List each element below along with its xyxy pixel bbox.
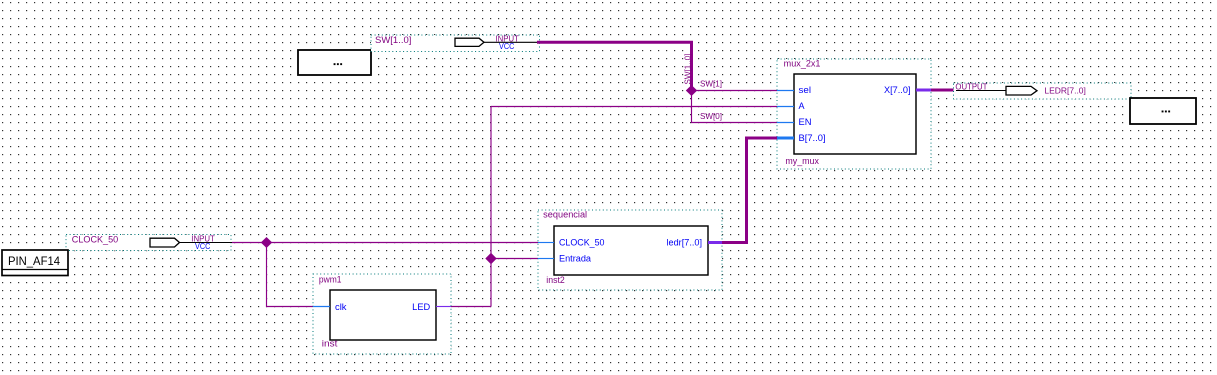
svg-text:LEDR[7..0]: LEDR[7..0]: [1044, 87, 1086, 96]
annotation box B2 (right "..."): [1130, 98, 1196, 124]
svg-text:EN: EN: [799, 117, 812, 127]
junction on SW bus (sel tap): [686, 85, 697, 96]
mux_2x1 block my_mux: [777, 59, 931, 169]
svg-text:Entrada: Entrada: [559, 253, 591, 263]
svg-text:A: A: [799, 101, 805, 111]
output pin LEDR[7..0]: [954, 83, 1132, 100]
wire clock tap to pwm clk: [267, 243, 314, 307]
svg-text:SW[1..0]: SW[1..0]: [375, 35, 411, 46]
svg-text:SW[1..0]: SW[1..0]: [684, 54, 693, 85]
svg-text:inst: inst: [322, 338, 338, 348]
bus ledr[7..0] to mux B[7..0]: [722, 138, 777, 243]
stub sel: [777, 90, 794, 92]
svg-text:CLOCK_50: CLOCK_50: [72, 234, 118, 244]
wire SW[1] to mux sel: [692, 90, 778, 92]
stub B[7..0]: [777, 137, 794, 140]
svg-text:sequencial: sequencial: [543, 210, 587, 220]
wire to mux A input: [491, 106, 777, 108]
stub A: [777, 106, 794, 108]
bus X[7..0] to output pin: [931, 89, 956, 92]
junction Entrada tap: [485, 253, 496, 264]
junction CLOCK_50 -> pwm tap: [261, 237, 272, 248]
svg-text:VCC: VCC: [195, 242, 211, 251]
svg-text:pwm1: pwm1: [319, 274, 342, 284]
svg-text:ledr[7..0]: ledr[7..0]: [667, 237, 703, 247]
pwm1 block inst: [313, 274, 451, 354]
svg-text:inst2: inst2: [546, 275, 565, 285]
svg-text:sel: sel: [799, 85, 812, 95]
svg-text:B[7..0]: B[7..0]: [799, 133, 826, 143]
svg-text:X[7..0]: X[7..0]: [884, 85, 911, 95]
stub clk: [313, 306, 330, 308]
sequencial block inst2: [538, 210, 722, 291]
svg-text:CLOCK_50: CLOCK_50: [559, 237, 605, 247]
svg-text:SW[0]: SW[0]: [700, 112, 722, 121]
stub LED: [436, 306, 451, 308]
wire vertical riser x=491 (LED net): [490, 107, 492, 307]
svg-text:clk: clk: [335, 302, 347, 312]
location label PIN_AF14: [2, 250, 68, 276]
wire CLOCK_50 net: [232, 242, 538, 244]
svg-text:VCC: VCC: [499, 42, 515, 51]
svg-text:PIN_AF14: PIN_AF14: [8, 256, 61, 268]
stub Entrada: [538, 258, 554, 260]
input pin CLOCK_50: [66, 234, 232, 251]
stub X[7..0]: [916, 89, 931, 92]
svg-text:LED: LED: [412, 302, 431, 312]
svg-text:mux_2x1: mux_2x1: [784, 59, 821, 69]
svg-text:my_mux: my_mux: [785, 156, 819, 166]
svg-text:SW[1]: SW[1]: [700, 79, 722, 88]
input pin SW[1..0]: [371, 35, 540, 52]
wire to sequencial Entrada: [491, 258, 538, 260]
stub CLOCK_50: [538, 242, 554, 244]
wire SW[0] to mux EN: [692, 91, 778, 123]
stub ledr[7..0]: [708, 241, 722, 244]
annotation box B1 (top-left "..."): [298, 50, 371, 75]
stub EN: [777, 122, 794, 124]
wire pwm LED output: [451, 306, 491, 308]
wire: SW[1..0] bus from pin to tap: [537, 42, 692, 90]
